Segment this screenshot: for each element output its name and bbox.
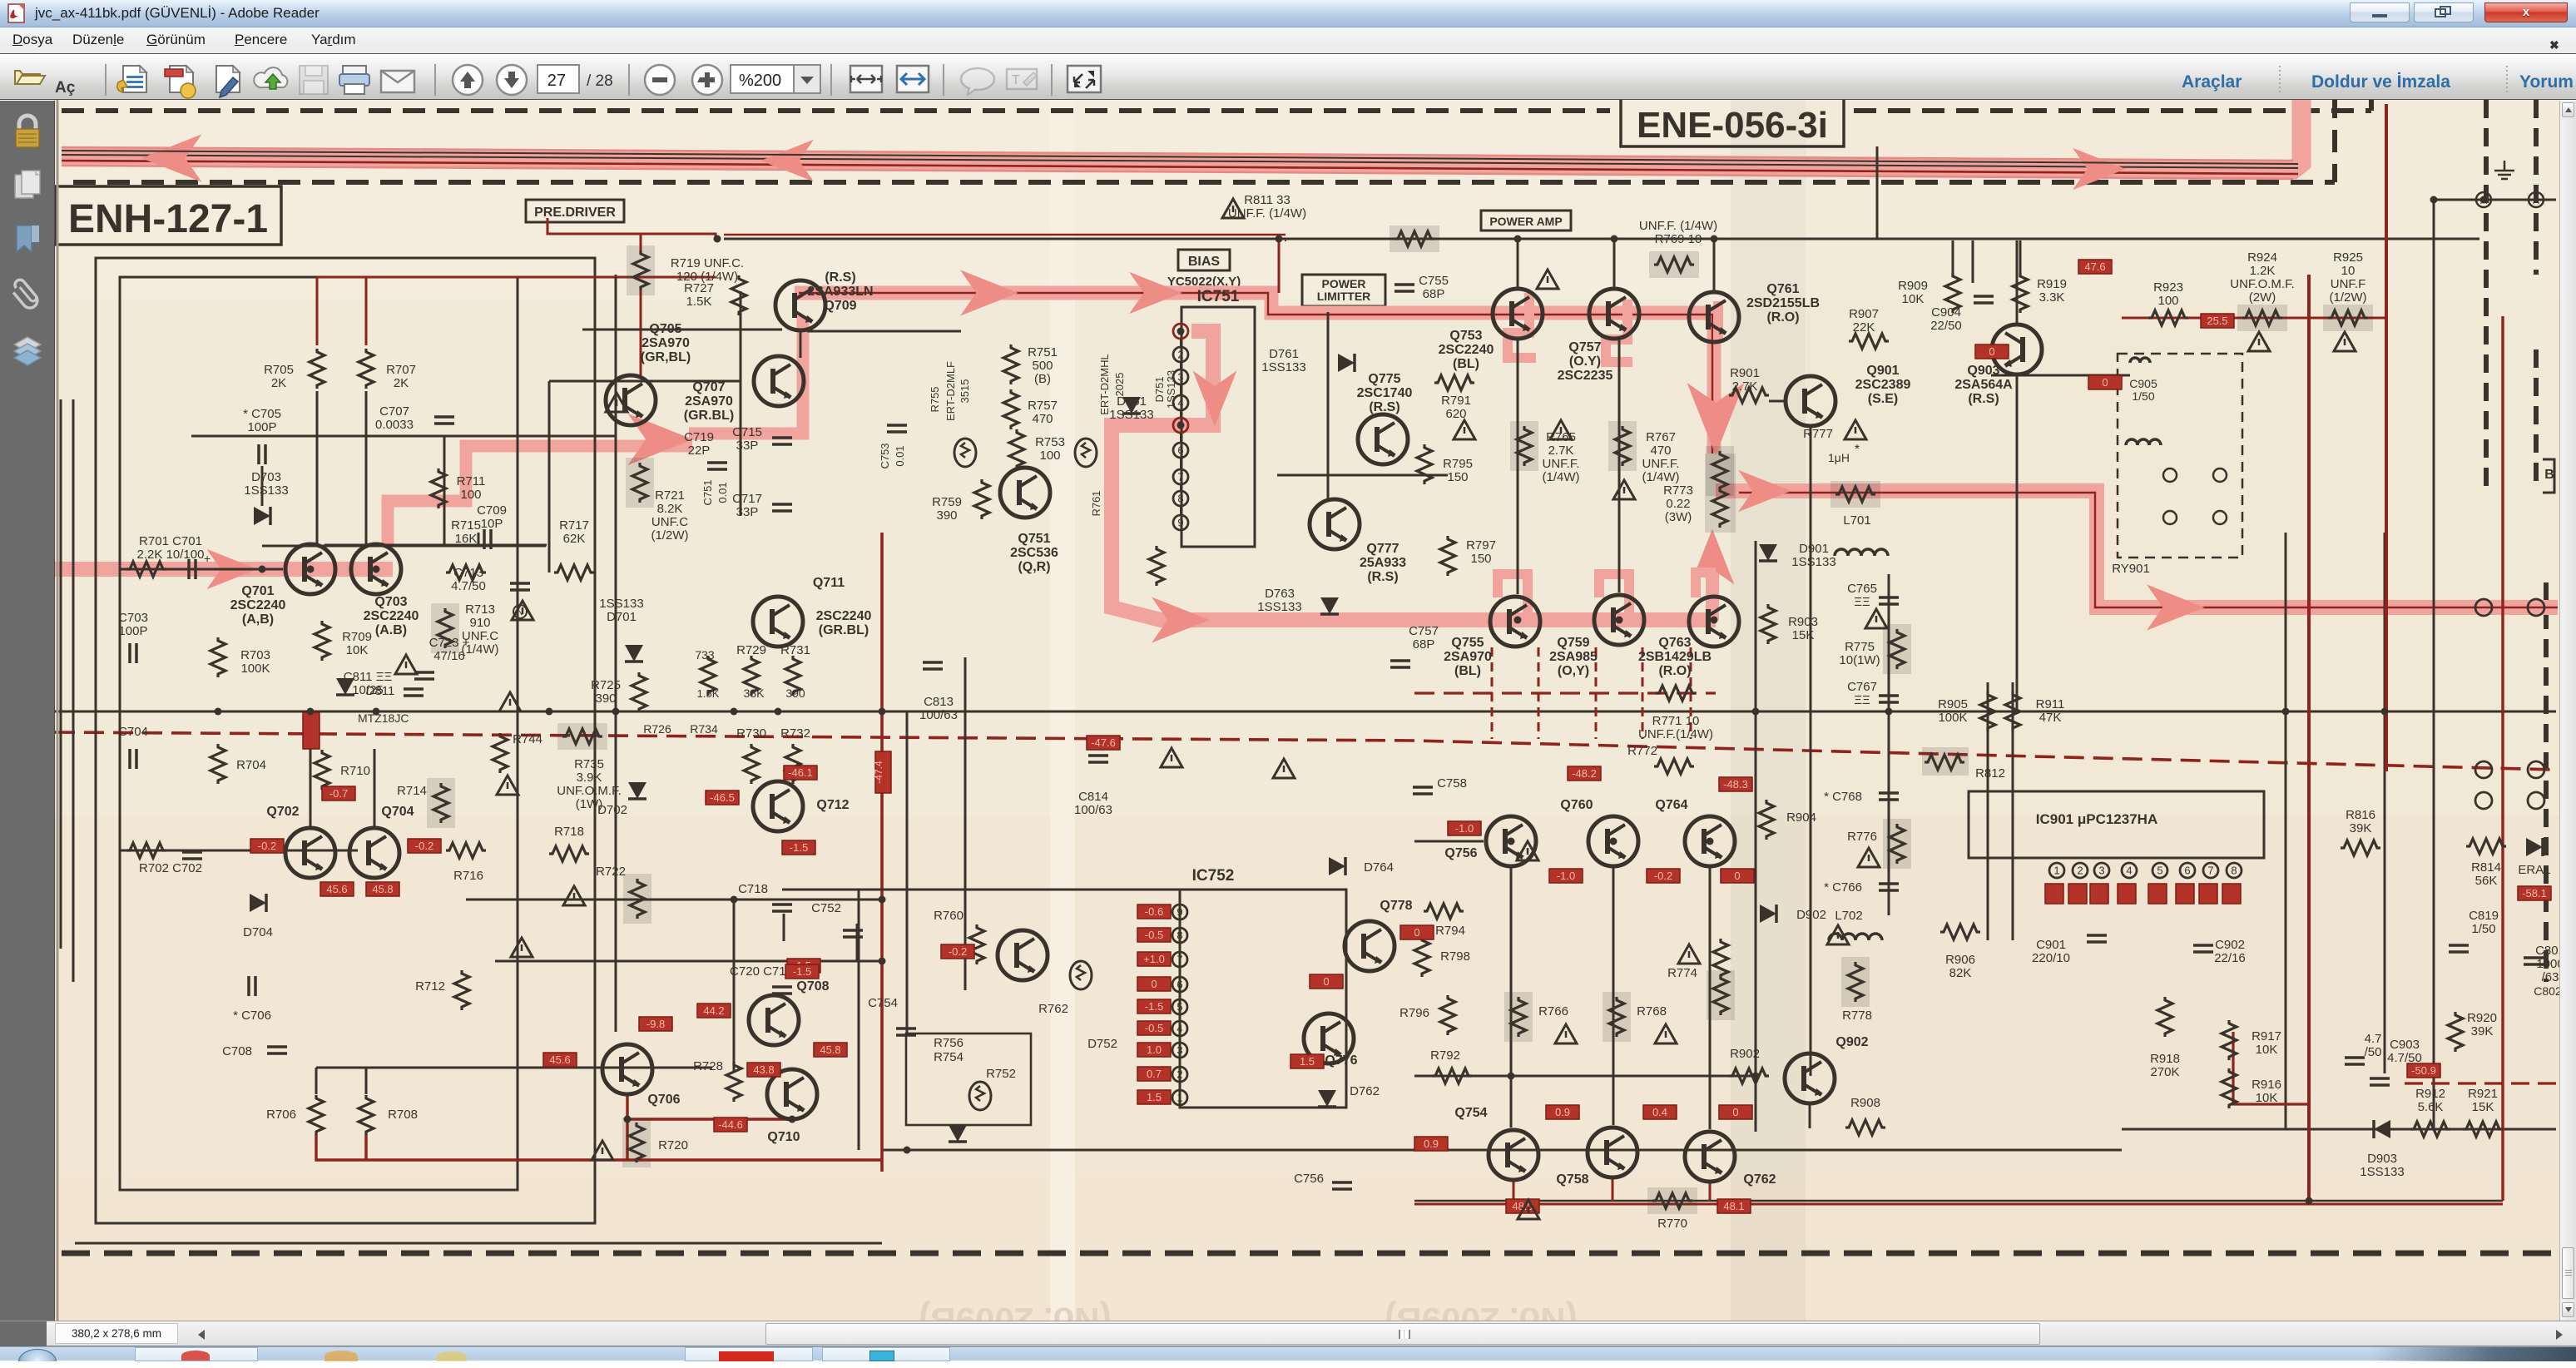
svg-text:1.5: 1.5 bbox=[1147, 1091, 1162, 1103]
wire Q761 collector up bbox=[1713, 240, 1716, 291]
shade R765 bbox=[1510, 421, 1538, 471]
diode D764 bbox=[1329, 857, 1345, 875]
icon zoom out bbox=[645, 65, 675, 95]
wire pin link bbox=[1180, 484, 1181, 491]
wire v1032 bbox=[858, 890, 860, 1150]
icon paperclip bbox=[9, 278, 41, 311]
label ENE-056-3i title box bbox=[1621, 98, 1844, 146]
svg-text:D762: D762 bbox=[1350, 1084, 1380, 1098]
wire right dashed vertical 3 bbox=[2534, 349, 2539, 491]
svg-text:D751: D751 bbox=[1153, 376, 1166, 402]
shade R924 bbox=[2237, 305, 2287, 331]
svg-text:-0.2: -0.2 bbox=[949, 945, 967, 958]
wire vert x1160 bbox=[964, 657, 967, 990]
resistor R921 bbox=[2463, 1122, 2503, 1137]
svg-text:-46.1: -46.1 bbox=[788, 766, 813, 779]
wire R728 bus bbox=[733, 900, 736, 1073]
icon email bbox=[381, 71, 414, 92]
svg-text:1.0: 1.0 bbox=[1147, 1043, 1162, 1056]
svg-text:R92115K: R92115K bbox=[2468, 1087, 2498, 1114]
wire bottom dashed border bbox=[62, 1251, 2556, 1256]
svg-text:33K: 33K bbox=[744, 686, 765, 700]
wire h1069 bbox=[782, 889, 1180, 891]
warning mark bbox=[1273, 759, 1295, 778]
wire R705 bottom bbox=[316, 391, 319, 546]
resistor R918 bbox=[2157, 997, 2172, 1037]
wire arrow input bbox=[207, 549, 258, 589]
svg-text:0.4: 0.4 bbox=[1652, 1106, 1667, 1118]
svg-text:R718: R718 bbox=[554, 825, 584, 839]
svg-text:7: 7 bbox=[2207, 865, 2213, 877]
wire red Q758 emitter bbox=[1612, 1179, 1614, 1201]
svg-text:POWER AMP: POWER AMP bbox=[1489, 215, 1562, 228]
resistor R917 bbox=[2222, 1020, 2237, 1060]
svg-text:0: 0 bbox=[1732, 1106, 1738, 1118]
resistor R753 bbox=[1009, 429, 1024, 469]
svg-text:R794: R794 bbox=[1435, 924, 1465, 938]
label BIAS box bbox=[1178, 250, 1230, 270]
pin IC751-7 bbox=[1173, 469, 1188, 484]
warning mark bbox=[395, 655, 417, 674]
wire red R916 box bbox=[2233, 1032, 2309, 1104]
svg-text:-0.7: -0.7 bbox=[329, 787, 348, 800]
svg-text:2SC2240(GR.BL): 2SC2240(GR.BL) bbox=[816, 609, 872, 637]
svg-text:R729: R729 bbox=[736, 643, 766, 657]
node voltage 48.0 bbox=[1506, 1199, 1539, 1213]
wire vert x2866 bbox=[2384, 533, 2386, 1073]
ground symbol top right bbox=[2494, 161, 2514, 179]
warning mark bbox=[606, 393, 627, 412]
node voltage IC901-4 bbox=[2118, 884, 2136, 904]
wire h1155 bbox=[495, 960, 882, 963]
svg-text:R792: R792 bbox=[1430, 1048, 1460, 1063]
resistor R707 bbox=[359, 349, 374, 389]
svg-text:C90422/50: C90422/50 bbox=[1930, 305, 1962, 333]
svg-text:3: 3 bbox=[2098, 865, 2104, 877]
svg-text:-1.0: -1.0 bbox=[1557, 870, 1575, 882]
node voltage -0.5 IC752-8 bbox=[1137, 928, 1171, 942]
wire Q903 up bbox=[2016, 240, 2019, 324]
wire outer input box bbox=[96, 258, 595, 1223]
svg-text:C71922P: C71922P bbox=[684, 430, 714, 458]
wire stub2 bbox=[881, 1119, 883, 1160]
svg-text:Q758: Q758 bbox=[1556, 1172, 1588, 1187]
svg-text:C708: C708 bbox=[222, 1044, 252, 1058]
node voltage 45.6 bbox=[543, 1053, 577, 1067]
node voltage 47.6 bbox=[2078, 260, 2112, 274]
transistor Q706 bbox=[602, 1044, 652, 1094]
svg-text:-46.5: -46.5 bbox=[710, 791, 735, 804]
wire C705 link bbox=[261, 466, 264, 506]
svg-text:R744: R744 bbox=[513, 732, 542, 746]
capacitor C756 bbox=[1332, 1182, 1352, 1189]
icon page down bbox=[497, 65, 527, 95]
svg-text:R90722K: R90722K bbox=[1849, 307, 1879, 335]
warning mark bbox=[1827, 925, 1849, 944]
svg-text:C7134.7/50: C7134.7/50 bbox=[451, 566, 486, 593]
svg-text:R7271.5K: R7271.5K bbox=[684, 281, 714, 309]
svg-text:R762: R762 bbox=[1038, 1002, 1068, 1016]
svg-text:R9125.6K: R9125.6K bbox=[2415, 1087, 2445, 1114]
transistor Q761 bbox=[1689, 292, 1739, 342]
window buttons bbox=[2350, 2, 2410, 22]
node voltage 0 bbox=[1975, 344, 2009, 359]
pin IC751-4 bbox=[1173, 395, 1188, 410]
diode D762 bbox=[1318, 1090, 1336, 1107]
svg-text:B: B bbox=[2544, 468, 2554, 482]
node voltage -0.6 IC752-9 bbox=[1137, 905, 1171, 919]
svg-text:C75768P: C75768P bbox=[1409, 624, 1439, 652]
svg-text:ERT-D2MHL: ERT-D2MHL bbox=[1098, 354, 1111, 414]
svg-text:C901220/10: C901220/10 bbox=[2032, 938, 2070, 965]
capacitor C708 bbox=[267, 1047, 287, 1053]
resistor R916 bbox=[2222, 1068, 2237, 1108]
capacitor C903 bbox=[2370, 1078, 2390, 1085]
svg-text:C75568P: C75568P bbox=[1419, 274, 1449, 301]
svg-text:C9051/50: C9051/50 bbox=[2129, 377, 2157, 403]
svg-text:ERA1: ERA1 bbox=[2518, 863, 2550, 877]
resistor R716 bbox=[446, 843, 486, 858]
svg-text:%200: %200 bbox=[739, 72, 781, 90]
icon comment disabled bbox=[961, 68, 994, 95]
resistor R796 bbox=[1440, 995, 1455, 1035]
node voltage -47.6 bbox=[1087, 736, 1120, 750]
pin IC901-4 bbox=[2122, 863, 2137, 878]
svg-text:Q708: Q708 bbox=[796, 979, 829, 994]
resistor R773 bbox=[1712, 451, 1727, 491]
svg-text:2025: 2025 bbox=[1113, 373, 1126, 397]
wire pin link bbox=[1180, 433, 1181, 443]
wire red right frame left bbox=[2307, 275, 2311, 1201]
capacitor C705 bbox=[259, 444, 265, 464]
node voltage -58.1 bbox=[2518, 886, 2551, 900]
wire arrow IC751 down bbox=[1193, 371, 1237, 427]
wire -B rail dark red dashed bbox=[55, 732, 2556, 770]
capacitor C718 bbox=[772, 905, 792, 911]
shade R925 bbox=[2323, 305, 2373, 331]
wire Q902 emitter bbox=[1809, 1103, 1811, 1128]
wire staple Q755 bbox=[1498, 574, 1528, 620]
svg-text:-1.5: -1.5 bbox=[793, 965, 811, 978]
transistor Q712 bbox=[753, 781, 803, 831]
resistor R715 bbox=[446, 565, 486, 580]
wire Q704 up bbox=[374, 749, 376, 826]
svg-text:7: 7 bbox=[1177, 954, 1182, 966]
svg-text:5: 5 bbox=[1177, 419, 1183, 432]
svg-text:A: A bbox=[2480, 195, 2487, 206]
diode D903 bbox=[2374, 1120, 2390, 1138]
svg-text:Q776: Q776 bbox=[1325, 1053, 1357, 1068]
transistor Q710 bbox=[767, 1069, 817, 1119]
warning mark bbox=[563, 886, 585, 905]
svg-text:* C706: * C706 bbox=[233, 1009, 271, 1023]
wire arrow down Q761 bbox=[1687, 383, 1745, 455]
wire input stub bbox=[120, 568, 283, 571]
resistor R735 bbox=[562, 729, 602, 744]
wire top band edge1 bbox=[62, 147, 2293, 161]
wire dark red dashed seg bbox=[1414, 691, 1716, 694]
resistor R774a bbox=[1713, 939, 1728, 979]
svg-text:-50.9: -50.9 bbox=[2411, 1064, 2436, 1077]
svg-text:IC751: IC751 bbox=[1197, 288, 1240, 305]
warning mark bbox=[2334, 332, 2356, 351]
wire highlight up to R773 bbox=[1706, 549, 1719, 620]
node voltage 0 IC752-6 bbox=[1137, 977, 1171, 991]
diode D701 bbox=[625, 645, 643, 662]
transistor Q764 bbox=[1685, 816, 1735, 866]
svg-text:R90910K: R90910K bbox=[1898, 279, 1928, 306]
svg-text:R766: R766 bbox=[1538, 1004, 1568, 1019]
pin IC901-3 bbox=[2094, 863, 2109, 878]
svg-text:Q778: Q778 bbox=[1380, 899, 1412, 913]
svg-text:R71516K: R71516K bbox=[451, 518, 481, 546]
transistor Q705 bbox=[606, 375, 656, 425]
op-amp IC752 box bbox=[1180, 890, 1346, 1108]
svg-text:R731: R731 bbox=[780, 643, 810, 657]
svg-text:C814100/63: C814100/63 bbox=[1074, 790, 1112, 817]
capacitor 4.7 bbox=[2345, 1058, 2365, 1064]
wire upper rail red bbox=[724, 234, 1286, 235]
svg-text:R760: R760 bbox=[934, 909, 964, 923]
svg-text:Q712: Q712 bbox=[816, 798, 849, 812]
wire Q753 collector up bbox=[1517, 240, 1519, 289]
coil C905 bbox=[2130, 358, 2150, 363]
wire h524 bbox=[191, 435, 616, 438]
capacitor C723 bbox=[414, 672, 434, 679]
resistor R721 bbox=[632, 463, 647, 503]
transistor Q757 bbox=[1589, 289, 1639, 339]
svg-text:4.7/50: 4.7/50 bbox=[2365, 1032, 2382, 1059]
resistor R901 bbox=[1729, 388, 1769, 403]
wire page edge shadow bbox=[57, 100, 59, 1321]
shade R778 bbox=[1841, 957, 1870, 1007]
svg-text:5: 5 bbox=[1177, 1001, 1182, 1014]
wire arrow bias2 bbox=[1129, 272, 1182, 315]
svg-text:1μH: 1μH bbox=[1828, 451, 1850, 464]
svg-text:R752: R752 bbox=[986, 1067, 1016, 1081]
wire output bottom rail red bbox=[1414, 1203, 2503, 1206]
svg-text:/ 28: / 28 bbox=[587, 72, 613, 90]
svg-text:Araçlar: Araçlar bbox=[2182, 72, 2242, 92]
pin IC901-1 bbox=[2049, 863, 2064, 878]
wire stub bbox=[1285, 239, 1286, 241]
wire lower rail bbox=[882, 1149, 2122, 1152]
svg-text:+1.0: +1.0 bbox=[1143, 953, 1165, 965]
node voltage IC901-3 bbox=[2090, 884, 2108, 904]
node voltage 0.4 bbox=[1643, 1105, 1677, 1119]
shade R777 bbox=[1830, 481, 1880, 508]
capacitor C901 bbox=[2087, 935, 2107, 942]
svg-text:0: 0 bbox=[1151, 978, 1157, 990]
svg-text:C720 C716: C720 C716 bbox=[730, 964, 793, 979]
svg-text:Q710: Q710 bbox=[767, 1130, 800, 1144]
label POWER AMP box bbox=[1481, 211, 1571, 230]
wire staple Q759 bbox=[1599, 574, 1629, 620]
app icon PDF bbox=[7, 3, 27, 23]
node voltage 48.1 bbox=[1717, 1199, 1751, 1213]
svg-text:R716: R716 bbox=[453, 869, 483, 883]
resistor R912 bbox=[2410, 1122, 2450, 1137]
wire Q901-Q902 column bbox=[1810, 427, 1812, 1076]
resistor R710 bbox=[315, 750, 329, 790]
resistor R919 bbox=[2013, 273, 2028, 313]
resistor UNF.F. bbox=[1654, 257, 1694, 272]
svg-text:6: 6 bbox=[1177, 444, 1183, 457]
resistor R714 bbox=[433, 783, 448, 823]
wire Q764-Q762 column bbox=[1709, 867, 1712, 1129]
svg-text:C70910P: C70910P bbox=[477, 503, 507, 531]
svg-text:C7070.0033: C7070.0033 bbox=[375, 404, 414, 432]
wire lower rail right bbox=[2122, 1128, 2556, 1131]
capacitor C758 bbox=[1413, 787, 1433, 794]
node voltage -0.2 bbox=[250, 839, 284, 853]
svg-text:-0.2: -0.2 bbox=[258, 840, 276, 852]
resistor R759 bbox=[974, 479, 989, 519]
svg-text:R714: R714 bbox=[397, 784, 427, 798]
node voltage 1.5 bbox=[787, 959, 820, 973]
capacitor C814 bbox=[1088, 756, 1108, 762]
svg-text:R720: R720 bbox=[658, 1138, 688, 1152]
warning mark bbox=[1858, 848, 1880, 867]
wire Q757 collector up bbox=[1613, 240, 1616, 289]
capacitor C704 bbox=[130, 749, 136, 769]
resistor R775 bbox=[1890, 629, 1905, 669]
transistor Q755 bbox=[1490, 597, 1540, 647]
svg-text:7: 7 bbox=[1177, 471, 1183, 483]
icon cloud upload bbox=[254, 67, 287, 89]
svg-text:L702: L702 bbox=[1835, 909, 1862, 923]
svg-text:R777: R777 bbox=[1803, 427, 1833, 441]
relay RY901 dashed box bbox=[2118, 354, 2242, 558]
wire vert x1090 bbox=[906, 711, 909, 1036]
wire red predriver bbox=[547, 218, 716, 239]
svg-text:Yorum: Yorum bbox=[2519, 72, 2574, 92]
taskbar sliver bbox=[0, 1346, 2576, 1361]
shade R766 bbox=[1504, 992, 1533, 1042]
shade R719 bbox=[627, 245, 655, 295]
resistor R792 bbox=[1432, 1068, 1472, 1083]
resistor R703 bbox=[211, 637, 225, 677]
page number box bbox=[537, 65, 579, 93]
svg-text:D702: D702 bbox=[597, 803, 627, 817]
resistor R812 bbox=[1925, 755, 1964, 770]
capacitor C713 bbox=[510, 583, 530, 590]
svg-text:1.5: 1.5 bbox=[1300, 1055, 1315, 1068]
diode D702 bbox=[628, 782, 646, 799]
icon save disabled bbox=[300, 66, 328, 94]
node voltage -9.8 bbox=[639, 1017, 672, 1031]
svg-text:C751: C751 bbox=[701, 479, 714, 505]
node voltage -0.2 bbox=[408, 839, 441, 853]
svg-text:ERT-D2MLF: ERT-D2MLF bbox=[944, 361, 957, 421]
svg-text:2: 2 bbox=[1177, 1068, 1182, 1081]
wire vert x2925 bbox=[2433, 200, 2435, 1129]
capacitor C765 bbox=[1879, 597, 1899, 604]
icon lock bbox=[16, 116, 39, 147]
svg-text:C758: C758 bbox=[1437, 776, 1467, 791]
pin IC901-7 bbox=[2203, 863, 2218, 878]
shade R714 bbox=[427, 778, 455, 828]
svg-text:9: 9 bbox=[1177, 906, 1182, 919]
node voltage IC901-6 bbox=[2176, 884, 2194, 904]
wire Q705 col bbox=[615, 277, 617, 546]
diode D752 bbox=[949, 1125, 967, 1142]
svg-text:-0.2: -0.2 bbox=[1654, 870, 1672, 882]
resistor R729 bbox=[744, 656, 759, 696]
svg-text:Q764: Q764 bbox=[1655, 798, 1687, 812]
shade R713 bbox=[431, 603, 459, 653]
label POWER LIMITTER box bbox=[1302, 275, 1385, 306]
resistor R774 bbox=[1713, 975, 1728, 1015]
wire Q707 base bbox=[549, 380, 741, 383]
capacitor C752 bbox=[843, 930, 863, 937]
wire R707 bottom bbox=[365, 391, 368, 546]
wire top dashed border right of ENE box bbox=[1854, 108, 2371, 113]
node voltage -46.1 bbox=[784, 766, 817, 780]
svg-text:47.6: 47.6 bbox=[2084, 260, 2105, 273]
svg-text:1SS133: 1SS133 bbox=[1165, 370, 1177, 409]
wire C904 up bbox=[1972, 240, 1974, 283]
wire vert x2110 bbox=[1755, 541, 1757, 1132]
svg-text:0: 0 bbox=[1734, 870, 1740, 882]
svg-text:C718: C718 bbox=[738, 882, 768, 896]
svg-text:R902: R902 bbox=[1730, 1047, 1760, 1061]
wire h571 bbox=[1277, 474, 1448, 477]
wire vert R905 bbox=[1987, 682, 1989, 940]
capacitor C811 bbox=[404, 689, 424, 696]
wire top dashed border corner up bbox=[2369, 96, 2374, 111]
pin IC751-9 bbox=[1173, 515, 1188, 530]
svg-text:R9193.3K: R9193.3K bbox=[2037, 277, 2067, 305]
wire vert R911 bbox=[2012, 682, 2014, 940]
icon save-as bbox=[117, 66, 146, 92]
svg-text:R770: R770 bbox=[1657, 1217, 1687, 1231]
wire R752 network box bbox=[906, 1033, 1031, 1125]
svg-text:C756: C756 bbox=[1294, 1172, 1324, 1186]
resistor R791 bbox=[1434, 375, 1474, 390]
trimmer R754 bbox=[969, 1082, 991, 1110]
wire h656 bbox=[324, 544, 547, 547]
wire C707 drop bbox=[443, 436, 446, 546]
wire second dashed border corner up bbox=[2332, 96, 2337, 182]
resistor R902 bbox=[1729, 1068, 1769, 1083]
node voltage -0.2 bbox=[941, 944, 974, 959]
node voltage -44.6 bbox=[714, 1118, 747, 1132]
svg-text:+: + bbox=[204, 552, 211, 565]
junction dots bbox=[307, 708, 315, 716]
svg-text:-1.5: -1.5 bbox=[790, 841, 808, 854]
svg-text:45.8: 45.8 bbox=[820, 1043, 840, 1056]
svg-text:R9012.7K: R9012.7K bbox=[1730, 366, 1760, 394]
wire highlighted bias trace bbox=[795, 293, 1714, 454]
wire vert x740 bbox=[615, 275, 617, 1032]
node voltage -46.5 bbox=[706, 791, 739, 805]
left sidebar bbox=[0, 101, 55, 1321]
resistor R909 bbox=[1945, 273, 1960, 313]
resistor R719 bbox=[633, 250, 648, 290]
capacitor C813 bbox=[923, 662, 943, 669]
svg-text:3515: 3515 bbox=[959, 379, 971, 404]
svg-text:R701 C7012.2K 10/100: R701 C7012.2K 10/100 bbox=[137, 534, 205, 562]
svg-text:Q702: Q702 bbox=[266, 805, 299, 819]
warning mark R720 bbox=[592, 1141, 613, 1160]
svg-text:R756R754: R756R754 bbox=[934, 1036, 964, 1064]
svg-text:R90682K: R90682K bbox=[1945, 953, 1975, 980]
node voltage 43.8 bbox=[747, 1063, 780, 1077]
wire C718 drop bbox=[783, 914, 785, 941]
wire highlighted top feedback trace bbox=[62, 95, 2301, 170]
capacitor C755 bbox=[1395, 285, 1414, 291]
